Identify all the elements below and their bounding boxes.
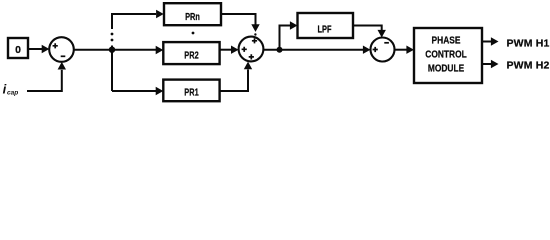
svg-text:i: i [3,81,7,96]
svg-text:PR2: PR2 [184,49,198,60]
svg-text:MODULE: MODULE [428,63,464,74]
svg-text:PRn: PRn [185,11,200,22]
svg-text:PR1: PR1 [184,87,198,98]
svg-text:CONTROL: CONTROL [425,49,467,60]
svg-text:cap: cap [7,89,18,96]
svg-text:0: 0 [15,44,21,56]
svg-text:PHASE: PHASE [432,35,461,46]
svg-text:PWM H2: PWM H2 [507,59,550,71]
svg-text:LPF: LPF [318,24,332,35]
svg-text:PWM H1: PWM H1 [507,38,550,50]
